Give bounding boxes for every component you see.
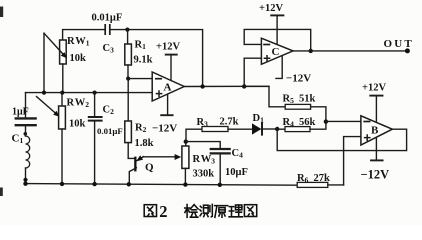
svg-text:+12V: +12V bbox=[362, 83, 386, 94]
resistor R2 1.8k bbox=[127, 79, 129, 121]
junction B inverting node bbox=[324, 119, 328, 123]
svg-text:RW1: RW1 bbox=[67, 36, 90, 48]
svg-text:−12V: −12V bbox=[361, 168, 390, 182]
svg-text:Q: Q bbox=[145, 162, 154, 174]
svg-text:R5: R5 bbox=[283, 94, 295, 106]
svg-text:27k: 27k bbox=[314, 173, 331, 184]
op-amp C bbox=[261, 38, 293, 64]
glyph 图 (second) bbox=[244, 205, 256, 217]
glyph 测 bbox=[200, 204, 212, 216]
junction RW1-RW2 node bbox=[60, 91, 64, 95]
junction coil end bbox=[23, 178, 27, 182]
svg-text:+12V: +12V bbox=[156, 42, 180, 53]
svg-text:330k: 330k bbox=[193, 169, 215, 180]
glyph 理 bbox=[229, 205, 242, 217]
svg-text:1.8k: 1.8k bbox=[135, 138, 154, 149]
svg-text:B: B bbox=[371, 125, 379, 137]
transistor Q base bar bbox=[134, 157, 136, 172]
junction node A inverting input bbox=[126, 77, 130, 81]
svg-text:A: A bbox=[164, 82, 172, 94]
wire Q emitter to RW3 wiper bbox=[143, 156, 176, 158]
potentiometer RW1 body bbox=[60, 40, 67, 64]
capacitor C2 wire bottom bbox=[94, 122, 96, 185]
resistor R4 56k bbox=[277, 128, 285, 130]
wire node to C4 bbox=[186, 142, 220, 149]
junction C noninverting tap bbox=[242, 84, 246, 88]
wire A inverting input bbox=[127, 78, 152, 80]
wire B inverting input bbox=[326, 120, 361, 122]
wire top feedback of A (C3 to riser at A output) bbox=[111, 30, 203, 87]
wire C noninverting input bbox=[244, 58, 261, 86]
svg-text:10k: 10k bbox=[69, 119, 86, 130]
glyph 检 bbox=[185, 205, 198, 218]
op-amp A bbox=[152, 72, 184, 101]
wire A output bbox=[184, 85, 269, 87]
wire B noninverting input bbox=[344, 137, 361, 185]
svg-text:0.01μF: 0.01μF bbox=[97, 126, 123, 136]
svg-text:1μF: 1μF bbox=[12, 107, 29, 118]
svg-text:C1: C1 bbox=[12, 133, 24, 146]
svg-text:R4: R4 bbox=[283, 117, 295, 129]
svg-text:RW2: RW2 bbox=[67, 98, 90, 110]
svg-text:−12V: −12V bbox=[152, 123, 177, 135]
svg-text:2: 2 bbox=[159, 202, 167, 221]
diode D1 bbox=[252, 123, 261, 134]
junction C1 coil top blob bbox=[24, 132, 28, 136]
wire A noninverting input line bbox=[26, 92, 153, 94]
svg-text:C: C bbox=[272, 46, 280, 58]
junction A output feedback bbox=[200, 84, 204, 88]
svg-text:RW3: RW3 bbox=[193, 154, 216, 166]
junction rail C2 bbox=[92, 182, 96, 186]
junction rail Q collector bbox=[127, 182, 131, 186]
resistor R1 9.1k bbox=[127, 30, 129, 44]
resistor R5 51k bbox=[244, 86, 285, 106]
node OUT terminal bbox=[405, 48, 410, 53]
svg-text:C3: C3 bbox=[103, 43, 115, 55]
svg-text:56k: 56k bbox=[299, 117, 316, 128]
potentiometer RW1 wiper arrow bbox=[44, 33, 64, 54]
junction rail RW2 bbox=[60, 182, 64, 186]
wire B output feedback loop bbox=[277, 129, 406, 150]
junction rail RW3 bbox=[183, 182, 187, 186]
wire RW1 bottom bbox=[62, 64, 64, 93]
scan mark bottom-left edge bbox=[0, 188, 3, 197]
scan mark top-left edge bbox=[0, 7, 3, 18]
potentiometer RW2 body bbox=[61, 93, 63, 106]
junction C2 node bbox=[93, 91, 97, 95]
inductor coil below C1 bbox=[25, 126, 27, 136]
svg-text:10μF: 10μF bbox=[225, 167, 248, 178]
junction wiper node bbox=[42, 91, 46, 95]
svg-text:9.1k: 9.1k bbox=[134, 55, 153, 66]
wire top feedback of A (RW1 top to C3) bbox=[63, 30, 105, 40]
potentiometer RW3 body bbox=[185, 142, 187, 146]
junction C output bbox=[309, 49, 313, 53]
svg-text:R2: R2 bbox=[135, 123, 147, 135]
svg-text:+12V: +12V bbox=[259, 3, 283, 14]
svg-text:−12V: −12V bbox=[286, 73, 311, 85]
svg-text:C2: C2 bbox=[103, 105, 115, 117]
svg-text:0.01μF: 0.01μF bbox=[92, 13, 123, 24]
svg-text:C4: C4 bbox=[232, 148, 244, 160]
capacitor C1 bbox=[16, 118, 36, 125]
wire ground rail bbox=[26, 184, 298, 186]
capacitor C1 top wire bbox=[25, 93, 27, 118]
glyph 原 bbox=[215, 206, 228, 218]
junction RW3 top node bbox=[184, 139, 188, 143]
svg-text:51k: 51k bbox=[299, 94, 316, 105]
svg-text:10k: 10k bbox=[70, 53, 87, 64]
junction D1 cathode node bbox=[275, 127, 279, 131]
op-amp B bbox=[361, 116, 392, 145]
svg-text:D1: D1 bbox=[253, 113, 265, 125]
junction rail C4 bbox=[218, 183, 222, 187]
capacitor C3 bbox=[105, 25, 110, 34]
svg-text:2.7k: 2.7k bbox=[220, 117, 239, 128]
capacitor C2 wire top bbox=[94, 93, 96, 117]
wire C output to OUT bbox=[293, 50, 407, 52]
svg-text:R3: R3 bbox=[197, 117, 209, 129]
power -12V of B bbox=[375, 138, 377, 160]
transistor Q emitter with arrow bbox=[137, 157, 144, 161]
junction node R1 top bbox=[125, 28, 129, 32]
capacitor C2 bbox=[89, 117, 102, 121]
wire C inverting input and feedback loop bbox=[244, 29, 311, 51]
power -12V of A bbox=[167, 94, 169, 114]
resistor R6 27k bbox=[297, 182, 328, 187]
glyph 图 (first) bbox=[144, 205, 156, 217]
svg-text:R1: R1 bbox=[135, 40, 147, 52]
capacitor C4 bbox=[211, 149, 230, 153]
wire RW1 wiper to noninverting line bbox=[43, 33, 45, 92]
potentiometer RW2 wiper arrow bbox=[37, 97, 56, 114]
transistor Q collector bbox=[129, 168, 136, 185]
svg-text:R6: R6 bbox=[297, 173, 309, 185]
junction rail C1 bbox=[23, 182, 27, 186]
svg-text:OUT: OUT bbox=[384, 38, 414, 50]
power -12V of C bbox=[276, 56, 282, 78]
resistor R3 2.7k bbox=[186, 129, 202, 141]
